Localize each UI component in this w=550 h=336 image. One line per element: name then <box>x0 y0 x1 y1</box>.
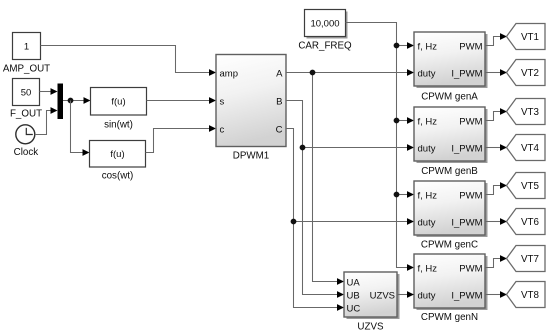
wire genC PWM to VT5 <box>485 182 507 194</box>
svg-text:duty: duty <box>418 291 436 302</box>
Fcn cos(wt) <box>90 141 146 182</box>
Fcn sin(wt) <box>91 88 147 131</box>
svg-text:UB: UB <box>347 291 360 302</box>
svg-text:UC: UC <box>347 304 361 315</box>
svg-text:f(u): f(u) <box>110 149 124 160</box>
goto VT3 <box>507 99 546 125</box>
subsystem CPWM genB <box>414 107 488 177</box>
wire genB I_PWM to VT4 <box>485 144 507 151</box>
mux <box>58 84 63 119</box>
svg-text:F_OUT: F_OUT <box>10 109 42 120</box>
wire CAR_FREQ down bus <box>346 23 415 271</box>
goto VT5 <box>507 173 546 199</box>
goto VT2 <box>507 60 546 86</box>
goto VT6 <box>507 209 546 235</box>
svg-text:VT8: VT8 <box>521 290 540 301</box>
wire genN PWM to VT7 <box>485 255 507 267</box>
wire genA I_PWM to VT2 <box>485 69 507 76</box>
svg-text:PWM: PWM <box>459 42 482 53</box>
svg-text:duty: duty <box>418 144 436 155</box>
subsystem DPWM1 <box>216 55 286 162</box>
clock <box>14 125 39 158</box>
node A junction <box>310 70 316 76</box>
node CAR_FREQ junction genA <box>394 43 400 49</box>
svg-text:Clock: Clock <box>14 147 39 158</box>
node CAR_FREQ junction genB <box>394 118 400 124</box>
node B junction <box>300 145 306 151</box>
svg-text:duty: duty <box>418 218 436 229</box>
svg-text:PWM: PWM <box>459 117 482 128</box>
wire genB PWM to VT3 <box>485 108 507 120</box>
svg-text:f, Hz: f, Hz <box>418 191 438 202</box>
svg-text:CAR_FREQ: CAR_FREQ <box>298 41 352 52</box>
wire genC I_PWM to VT6 <box>485 218 507 225</box>
svg-text:PWM: PWM <box>459 264 482 275</box>
node CAR_FREQ junction genC <box>394 192 400 198</box>
svg-text:1: 1 <box>24 41 29 52</box>
svg-text:AMP_OUT: AMP_OUT <box>3 64 50 75</box>
svg-text:50: 50 <box>21 87 32 98</box>
wire F_OUT to mux <box>40 88 58 95</box>
svg-text:f, Hz: f, Hz <box>418 117 438 128</box>
node C junction <box>291 219 297 225</box>
svg-text:B: B <box>276 97 282 108</box>
svg-text:CPWM genN: CPWM genN <box>421 312 478 323</box>
svg-text:sin(wt): sin(wt) <box>104 120 133 131</box>
svg-text:VT2: VT2 <box>521 68 539 79</box>
svg-text:I_PWM: I_PWM <box>451 291 482 302</box>
svg-text:I_PWM: I_PWM <box>451 218 482 229</box>
goto VT4 <box>507 135 546 161</box>
wire sin(wt) to DPWM1 s <box>147 97 217 104</box>
svg-text:f(u): f(u) <box>111 97 125 108</box>
constant CAR_FREQ <box>298 10 352 52</box>
wire B to genB duty and UZVS UB <box>286 101 414 298</box>
subsystem CPWM genN <box>414 254 488 323</box>
svg-text:UZVS: UZVS <box>370 291 395 302</box>
wire CAR_FREQ branch to genC f <box>397 191 415 198</box>
wire clock to mux <box>35 107 58 134</box>
wire genA PWM to VT1 <box>485 33 507 45</box>
svg-text:UA: UA <box>347 278 361 289</box>
goto VT1 <box>507 24 546 50</box>
wire genN I_PWM to VT8 <box>485 291 507 298</box>
svg-text:CPWM genC: CPWM genC <box>421 240 478 251</box>
svg-text:VT5: VT5 <box>521 181 540 192</box>
constant AMP_OUT <box>3 33 50 75</box>
svg-text:VT6: VT6 <box>521 217 540 228</box>
svg-text:CPWM genA: CPWM genA <box>421 92 478 103</box>
svg-text:I_PWM: I_PWM <box>451 69 482 80</box>
wire UZVS to genN duty <box>397 291 414 298</box>
svg-text:f, Hz: f, Hz <box>418 264 438 275</box>
svg-text:VT7: VT7 <box>521 254 539 265</box>
svg-text:A: A <box>276 69 283 80</box>
wire A to genA duty and UZVS UA <box>286 69 414 285</box>
wire AMP_OUT to DPWM1 amp <box>41 46 217 76</box>
wire cos(wt) to DPWM1 c <box>146 125 217 152</box>
svg-text:UZVS: UZVS <box>357 322 384 333</box>
goto VT8 <box>507 282 546 308</box>
constant F_OUT <box>10 79 42 120</box>
svg-text:cos(wt): cos(wt) <box>102 171 134 182</box>
svg-text:f, Hz: f, Hz <box>418 42 438 53</box>
svg-text:c: c <box>220 125 225 136</box>
wire C to genC duty and UZVS UC <box>286 129 414 311</box>
svg-text:DPWM1: DPWM1 <box>233 151 269 162</box>
svg-text:VT3: VT3 <box>521 107 540 118</box>
svg-text:amp: amp <box>220 69 238 80</box>
wire CAR_FREQ branch to genA f <box>397 42 415 49</box>
subsystem UZVS <box>344 272 400 333</box>
subsystem CPWM genC <box>414 181 488 251</box>
svg-text:PWM: PWM <box>459 191 482 202</box>
svg-text:I_PWM: I_PWM <box>451 144 482 155</box>
svg-text:duty: duty <box>418 69 436 80</box>
svg-text:CPWM genB: CPWM genB <box>421 166 478 177</box>
wire mux to sin(wt) <box>63 97 91 104</box>
svg-text:VT4: VT4 <box>521 143 540 154</box>
wire junction to cos(wt) <box>71 101 90 156</box>
node mux-out junction <box>68 98 74 104</box>
svg-text:C: C <box>276 125 283 136</box>
svg-text:10,000: 10,000 <box>310 18 339 29</box>
svg-text:VT1: VT1 <box>521 32 539 43</box>
goto VT7 <box>507 246 546 272</box>
subsystem CPWM genA <box>414 32 488 103</box>
wire CAR_FREQ branch to genB f <box>397 117 415 124</box>
svg-text:s: s <box>220 97 225 108</box>
